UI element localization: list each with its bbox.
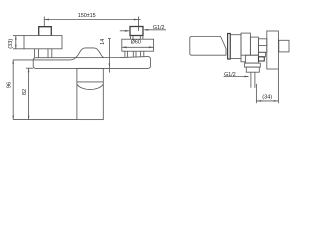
dimension 150±15 extension line right — [138, 17, 140, 32]
dimension Ø60 arrows — [122, 46, 127, 48]
dimension 150±15 line — [44, 19, 140, 21]
escutcheon left — [24, 36, 62, 49]
outlet nut — [246, 67, 259, 72]
svg-text:G1/2: G1/2 — [153, 25, 165, 31]
G1/2 callout upper: right segment with arrow — [144, 29, 166, 31]
body rear top edge line (96 reference) — [13, 58, 75, 60]
small dark block under nut (side) — [259, 57, 265, 61]
union nut side middle line — [259, 45, 267, 47]
body lower piece (side) — [245, 55, 258, 63]
dimension 150±15 extension line left — [43, 17, 45, 27]
dimension (33) arrows — [15, 36, 17, 40]
legs under right escutcheon — [124, 51, 126, 57]
dimension (34) arrows — [256, 100, 261, 102]
escutcheon right — [122, 39, 154, 51]
small block under nut (side) — [259, 52, 266, 57]
handle grip line — [77, 81, 103, 83]
G1/2 lower leader with arrow — [224, 76, 249, 78]
cap step to outlet — [241, 59, 245, 64]
union nut (side) — [259, 39, 267, 53]
escutcheon column (side) — [267, 31, 279, 69]
dimension 14 line — [108, 39, 110, 73]
handle grip arc — [77, 84, 103, 90]
dimension 14 top tick — [108, 38, 111, 40]
G1/2 callout upper: left segment with arrow — [120, 30, 129, 32]
dimension 82 extension line — [26, 67, 33, 69]
mixer body (front view) — [33, 57, 150, 69]
svg-text:Ø60: Ø60 — [131, 40, 141, 46]
svg-text:14: 14 — [100, 39, 106, 45]
lever handle (side) — [190, 37, 226, 56]
dimension 150±15 arrow right — [134, 19, 139, 21]
union nut right — [130, 27, 143, 36]
lever collar — [228, 34, 231, 60]
valley piece between housing and nut — [250, 37, 258, 55]
svg-text:(33): (33) — [8, 39, 14, 49]
bottom extension line to handle — [13, 119, 77, 121]
dimension (34) line — [256, 100, 278, 102]
svg-text:82: 82 — [22, 89, 28, 95]
dimension Ø60 line inside escutcheon — [122, 46, 154, 48]
cartridge cap — [230, 35, 241, 59]
dimension 14 arrow — [109, 63, 111, 67]
dimension 96 arrows — [12, 60, 14, 64]
dimension (33) extension lines — [13, 35, 25, 37]
cartridge dome — [75, 48, 104, 58]
handle (front view) — [77, 68, 103, 119]
dimension 82 arrows — [28, 68, 30, 72]
legs under left escutcheon — [34, 49, 36, 58]
dimension (34) extension lines — [255, 84, 257, 103]
dimension 150±15 arrow left — [44, 19, 49, 21]
dimension (33) line — [15, 36, 17, 49]
svg-text:150±15: 150±15 — [78, 13, 96, 19]
union nut left — [39, 27, 52, 36]
dimension 96 line — [12, 60, 14, 120]
outlet flange — [245, 63, 261, 67]
svg-text:G1/2: G1/2 — [224, 72, 236, 78]
legs under right nut — [129, 36, 131, 40]
svg-text:96: 96 — [7, 82, 13, 88]
wall union stub (side) — [279, 40, 289, 52]
outlet pipe — [250, 72, 252, 88]
cartridge housing — [241, 33, 250, 55]
svg-text:(34): (34) — [262, 94, 272, 100]
dimension 82 line — [28, 68, 30, 119]
